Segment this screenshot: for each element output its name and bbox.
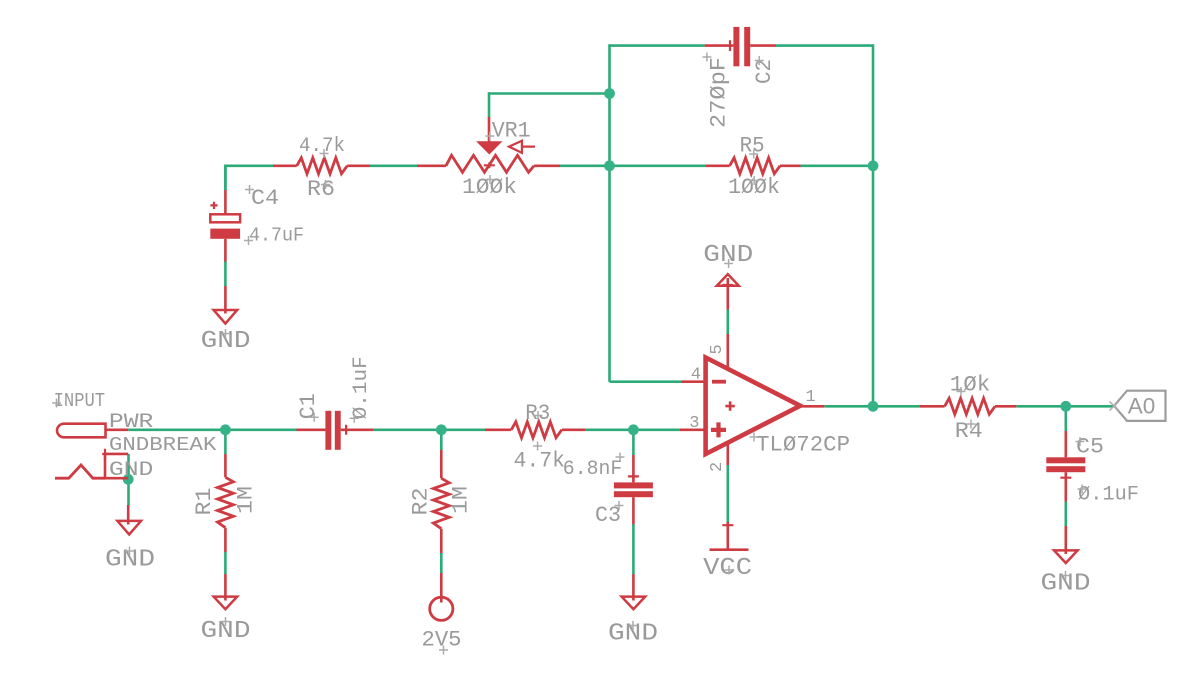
- origin cross VR1 value: [486, 175, 495, 184]
- ground symbol below R1: [224, 574, 227, 601]
- resistor R1 (vertical 1M): [224, 454, 227, 477]
- potentiometer VR1 (100k) body: [417, 165, 446, 168]
- svg-text:5: 5: [708, 344, 727, 354]
- origin cross GND up: [724, 259, 733, 268]
- svg-text:TLØ72CP: TLØ72CP: [756, 433, 850, 458]
- svg-text:PWR: PWR: [109, 411, 153, 434]
- connector A0 tag: [1114, 391, 1165, 421]
- svg-text:2V5: 2V5: [422, 628, 462, 653]
- junction dot: node R2: [436, 424, 447, 435]
- pin tick: jack ring: [102, 449, 108, 460]
- resistor R4 (10k): [920, 405, 945, 408]
- wire: jack sleeve vertical to gnd junction: [127, 454, 130, 506]
- A0 pin cross: [1110, 402, 1119, 411]
- pin: jack sleeve horizontal: [105, 477, 128, 480]
- origin cross C2: [755, 56, 764, 65]
- wire: op-amp pin5 to GND symbol: [726, 309, 729, 334]
- origin cross R5: [749, 150, 758, 159]
- junction dot: mid net at left vertical: [604, 160, 615, 171]
- ground symbol below C5: [1065, 526, 1068, 554]
- svg-text:VR1: VR1: [492, 119, 531, 144]
- svg-text:C2: C2: [752, 59, 777, 84]
- pin: jack tip PWR: [106, 428, 129, 431]
- pin tick: C5 bottom: [1060, 475, 1071, 481]
- pin: C1 right: [341, 428, 373, 431]
- pin: C1 left: [297, 428, 326, 431]
- origin cross R5 value: [750, 176, 759, 185]
- pin: C3 top: [632, 455, 635, 482]
- plus mark at pin3: [711, 422, 726, 437]
- pin tick: VR1 wiper base: [484, 163, 495, 169]
- wire: R5 to right vertical: [801, 165, 874, 168]
- wire: C1 to R2 junction: [373, 428, 441, 431]
- origin cross GND R1: [221, 617, 230, 626]
- origin cross R6: [321, 180, 330, 189]
- origin cross C1: [310, 413, 319, 422]
- wire: jack tip to input junction: [128, 428, 225, 431]
- origin cross C5: [1076, 437, 1085, 446]
- svg-text:C3: C3: [595, 503, 621, 528]
- capacitor C5 (0.1uF) plates: [1046, 457, 1085, 463]
- minus mark at pin4: [712, 380, 726, 384]
- small plus mark center: [725, 401, 734, 410]
- origin cross VCC: [725, 566, 734, 575]
- svg-text:1Øk: 1Øk: [950, 373, 991, 398]
- svg-text:R4: R4: [955, 419, 983, 444]
- wire: left vertical to R5: [610, 165, 707, 168]
- wire: input junction to C1: [225, 428, 296, 431]
- wire: C3 junction to op-amp pin3: [633, 428, 680, 431]
- wire: C5 bottom to GND: [1065, 502, 1068, 527]
- svg-text:3: 3: [689, 414, 699, 433]
- wire: VR1 wiper vertical drop: [488, 92, 491, 117]
- svg-text:Ø.1uF: Ø.1uF: [1078, 484, 1139, 507]
- origin cross 270pF: [702, 53, 711, 62]
- wire: R2 junction to R3: [441, 428, 485, 431]
- pin tick: pin5 gnd: [722, 282, 733, 288]
- capacitor C1 (0.1uF) plates: [325, 411, 331, 450]
- wire: below input junction to R1: [224, 431, 227, 454]
- wire: R1 bottom to GND: [224, 552, 227, 574]
- origin cross 4.7uF: [244, 236, 253, 245]
- jack sleeve lever zigzag: [55, 465, 105, 478]
- wire: VR1 to left vertical: [560, 165, 610, 168]
- wire: C4 bottom to GND: [224, 261, 227, 286]
- wire: output junction to R4: [873, 405, 920, 408]
- origin cross GND C3: [629, 621, 638, 630]
- junction dot: jack ground node: [123, 474, 134, 485]
- wire: left feedback vertical x=609.5: [608, 44, 611, 381]
- C4 polarity plus: [210, 202, 217, 209]
- VR1 adjustment arrow: [509, 141, 535, 153]
- origin cross GND C5: [1061, 571, 1070, 580]
- ground symbol below jack: [127, 505, 130, 525]
- svg-text:1: 1: [806, 388, 816, 407]
- origin cross GND C4: [221, 329, 230, 338]
- origin cross C4: [245, 185, 254, 194]
- svg-text:Ø.1uF: Ø.1uF: [350, 356, 373, 419]
- wire: R4 to C5 junction: [1016, 405, 1066, 408]
- op-amp U1 TL072CP triangle: [706, 358, 801, 455]
- pin: C5 top: [1065, 431, 1068, 457]
- wire: op-amp pin2 to VCC: [726, 465, 729, 522]
- capacitor C3 (6.8nF) plates: [614, 482, 653, 488]
- origin cross 0.1uF C5: [1078, 485, 1087, 494]
- svg-text:1M: 1M: [449, 486, 474, 514]
- svg-text:4.7uF: 4.7uF: [249, 225, 304, 247]
- svg-text:GND: GND: [109, 459, 153, 482]
- origin cross TL072CP: [750, 433, 759, 442]
- wire: VR1 wiper horizontal to left vertical: [489, 92, 610, 95]
- origin cross R4: [967, 420, 976, 429]
- wire: C2 right to right vertical: [776, 44, 873, 47]
- pin tick: VCC: [722, 522, 733, 528]
- op-amp pin2 lower red stub: [726, 441, 729, 465]
- ground symbol above op-amp pin5 (pointing up): [726, 278, 729, 310]
- junction dot: node C3: [628, 424, 639, 435]
- pin 4: inverting input stub: [682, 380, 707, 383]
- wire: op-amp pin4 horizontal: [610, 380, 682, 383]
- svg-text:GNDBREAK: GNDBREAK: [109, 434, 217, 456]
- junction dot: output at right vertical: [868, 401, 879, 412]
- connector INPUT jack tip (stadium): [57, 424, 105, 438]
- wire: R2 bottom to 2V5: [440, 553, 443, 573]
- jack ring bracket vertical: [104, 454, 107, 478]
- junction dot: mid net at right vertical: [868, 160, 879, 171]
- svg-text:INPUT: INPUT: [54, 390, 106, 412]
- origin cross C3: [615, 501, 624, 510]
- svg-text:C4: C4: [251, 186, 279, 211]
- svg-text:27ØpF: 27ØpF: [707, 57, 732, 128]
- wire: feedback top net from left vertical to C2: [610, 44, 705, 47]
- pin: C5 bottom: [1065, 472, 1068, 501]
- wire: R6 to VR1: [370, 165, 417, 168]
- pin tick: C1 right: [343, 425, 349, 435]
- wire: C4 top vertical: [224, 166, 227, 190]
- ground symbol below C3: [632, 574, 635, 601]
- 2V5 supply terminal circle: [440, 573, 443, 603]
- wire: mid net C4 corner to R6: [225, 166, 273, 190]
- wire: op-amp output to right vertical junction: [824, 405, 873, 408]
- wire: C5 junction down: [1065, 408, 1068, 431]
- wire: C3 bottom to GND: [632, 524, 635, 574]
- svg-text:C1: C1: [296, 393, 321, 419]
- pin: C2 left: [705, 44, 734, 47]
- resistor R6 (4.7k): [273, 165, 297, 168]
- wire: C3 junction down: [632, 431, 635, 455]
- capacitor C2 (270pF) plates: [733, 27, 739, 66]
- pin 5 stub: [726, 334, 729, 370]
- origin cross INPUT: [52, 399, 61, 408]
- svg-text:6.8nF: 6.8nF: [563, 458, 623, 481]
- svg-text:4.7k: 4.7k: [299, 135, 345, 158]
- VR1 wiper arrow (filled): [488, 117, 491, 146]
- svg-text:4: 4: [691, 366, 701, 385]
- pin tick: C3 top: [628, 474, 639, 480]
- svg-text:R6: R6: [307, 177, 335, 202]
- svg-text:1M: 1M: [234, 486, 259, 514]
- ground symbol below C4: [224, 286, 227, 314]
- svg-text:A0: A0: [1128, 394, 1156, 419]
- pin tick: C2 left: [727, 40, 733, 51]
- origin cross R3 value: [533, 442, 542, 451]
- wire: R3 to C3 junction: [585, 428, 633, 431]
- junction dot: node C5: [1060, 401, 1071, 412]
- resistor R3 (4.7k): [485, 428, 511, 431]
- capacitor C4 (4.7uF polarized): [224, 190, 227, 215]
- origin cross GND jack: [125, 547, 134, 556]
- origin cross R6 value: [320, 149, 329, 158]
- wire: C5 junction to A0: [1066, 405, 1114, 408]
- wire: below R2 junction: [440, 431, 443, 450]
- svg-text:R1: R1: [192, 488, 217, 516]
- svg-text:2: 2: [708, 462, 727, 472]
- pin 1: output stub: [801, 405, 824, 408]
- svg-text:R2: R2: [409, 488, 434, 516]
- origin cross 2V5: [439, 646, 448, 655]
- junction dot: input node R1: [220, 424, 231, 435]
- VCC supply symbol: [726, 522, 729, 550]
- pin: C3 bottom: [632, 497, 635, 524]
- origin cross 0.1uF C1: [350, 414, 359, 423]
- svg-text:4.7k: 4.7k: [514, 449, 566, 474]
- resistor R5 (100k): [706, 165, 730, 168]
- origin cross 6.8nF: [616, 453, 625, 462]
- junction dot: wiper net at left vertical: [604, 88, 615, 99]
- resistor R2 (vertical 1M): [440, 450, 443, 478]
- pin: jack GND (ring) horizontal: [105, 453, 128, 456]
- pin: C2 right: [750, 44, 776, 47]
- pin 3: non-inverting input stub: [680, 428, 706, 431]
- wire: right feedback vertical x=873: [872, 44, 875, 406]
- origin cross VR1: [485, 132, 494, 141]
- svg-text:VCC: VCC: [703, 555, 752, 582]
- origin cross R3: [534, 411, 543, 420]
- origin cross R4 value: [957, 387, 966, 396]
